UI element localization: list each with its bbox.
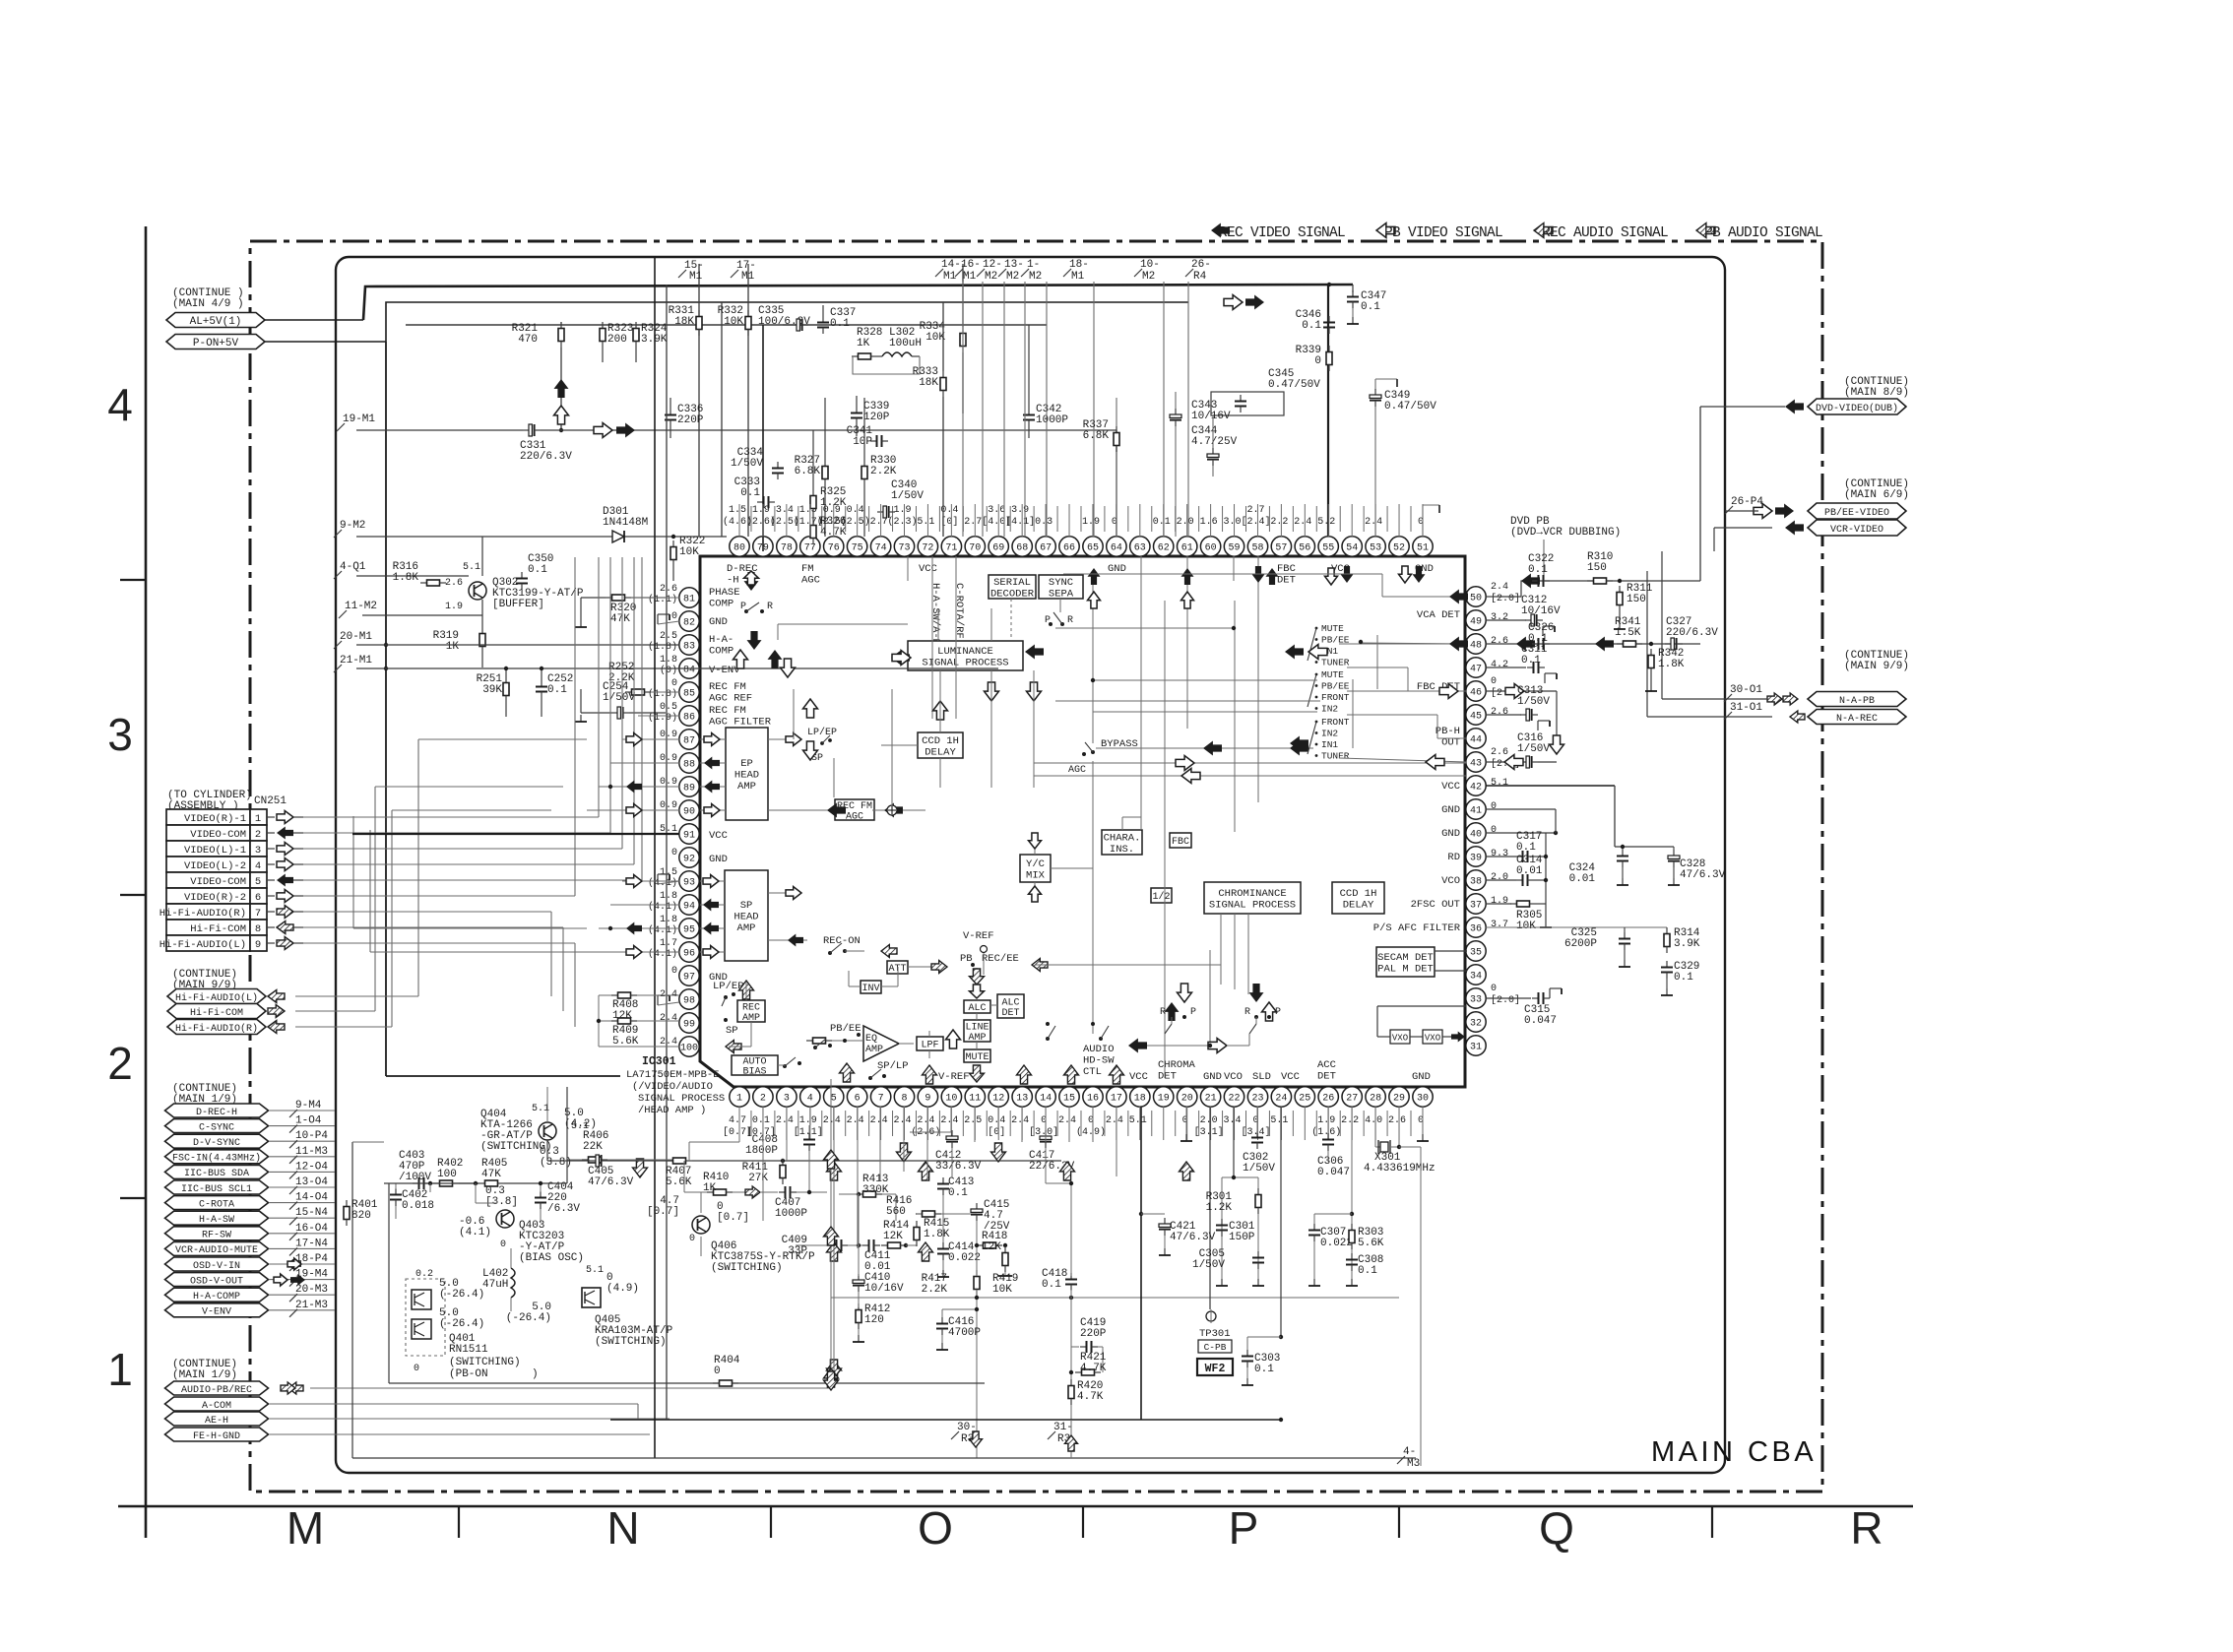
svg-text:4.433619MHz: 4.433619MHz <box>1364 1163 1435 1175</box>
svg-text:4: 4 <box>255 860 261 872</box>
transistor Q404 label <box>480 1109 533 1142</box>
svg-text:26: 26 <box>1322 1094 1334 1105</box>
svg-text:(4.9): (4.9) <box>1076 1126 1106 1138</box>
svg-text:[2.0]: [2.0] <box>1491 593 1520 604</box>
pin 82/92/97 ground hooks <box>658 614 670 624</box>
svg-text:48: 48 <box>1470 641 1482 652</box>
IC301 pin 59 <box>1224 537 1244 556</box>
wire label 1-O4 <box>289 1115 322 1133</box>
svg-text:C-ROTA: C-ROTA <box>199 1199 234 1210</box>
svg-text:220P: 220P <box>677 414 704 426</box>
svg-text:0.047: 0.047 <box>1524 1015 1557 1027</box>
connector CN251 pin 8 Hi-Fi-COM <box>166 920 267 935</box>
net tag A-COM <box>165 1397 269 1412</box>
wire pin47 <box>1486 667 1526 668</box>
arrow pb/ee hollow <box>1754 504 1772 519</box>
svg-text:COMP: COMP <box>709 599 734 610</box>
svg-text:0: 0 <box>414 1364 419 1374</box>
wire pin48 net <box>1486 643 1700 645</box>
wire 4-Q1 <box>356 575 469 577</box>
svg-text:0.3: 0.3 <box>1035 517 1053 528</box>
svg-text:19: 19 <box>1158 1094 1170 1105</box>
svg-text:21-M1: 21-M1 <box>340 655 372 667</box>
svg-text:30: 30 <box>1417 1094 1429 1105</box>
svg-text:1: 1 <box>255 813 261 825</box>
svg-text:FRONT: FRONT <box>1321 717 1350 728</box>
capacitor C312 <box>1525 614 1543 626</box>
wire VCC riser pin55 <box>1327 285 1329 537</box>
arrow CN251 pin 5 <box>267 879 275 881</box>
wires inner verticals <box>1092 581 1094 743</box>
svg-text:10/16V: 10/16V <box>1191 411 1231 422</box>
wire VCR-AUDIO-MUTE <box>269 1247 335 1249</box>
svg-text:10-P4: 10-P4 <box>295 1130 328 1142</box>
svg-text:CHROMINANCE: CHROMINANCE <box>1218 888 1286 900</box>
svg-text:64: 64 <box>1111 543 1122 554</box>
wire label 9-M2 <box>334 520 365 538</box>
svg-text:29: 29 <box>1393 1094 1405 1105</box>
svg-text:DET: DET <box>1277 575 1296 587</box>
svg-text:ACC: ACC <box>1317 1059 1336 1071</box>
wire left bus 2 <box>666 285 668 1419</box>
svg-text:M3: M3 <box>1407 1458 1420 1470</box>
ground <box>1545 673 1557 683</box>
svg-text:(4.1): (4.1) <box>459 1227 491 1239</box>
net tag V-ENV <box>165 1303 269 1318</box>
wire bottom rail <box>352 1457 1416 1459</box>
svg-text:TUNER: TUNER <box>1321 751 1350 762</box>
svg-text:/100V: /100V <box>399 1172 431 1183</box>
capacitor C312 label <box>1521 595 1561 617</box>
svg-text:0.022: 0.022 <box>1320 1238 1353 1249</box>
arrow CN251 pin 7 <box>267 911 275 913</box>
svg-text:P/S AFC FILTER: P/S AFC FILTER <box>1373 922 1461 934</box>
svg-text:55: 55 <box>1322 543 1334 554</box>
IC301 pin 98 <box>679 989 699 1009</box>
resistor R319 <box>479 627 485 653</box>
capacitor C411 <box>862 1239 880 1251</box>
resistor R324 <box>633 322 639 348</box>
IC301 pin 35 <box>1466 941 1486 961</box>
svg-text:34: 34 <box>1470 972 1482 983</box>
frame tick <box>120 579 146 581</box>
svg-text:(PB-ON: (PB-ON <box>449 1368 488 1380</box>
block LPF <box>917 1037 943 1051</box>
resistor eq series <box>806 1038 832 1044</box>
svg-text:24: 24 <box>1275 1094 1287 1105</box>
capacitor C402 label <box>402 1189 434 1212</box>
svg-text:DECODER: DECODER <box>990 588 1035 600</box>
svg-text:1/50V: 1/50V <box>1517 743 1550 755</box>
svg-text:[2.0]: [2.0] <box>1491 994 1520 1006</box>
wires top internal drops <box>907 556 909 581</box>
svg-text:90: 90 <box>683 807 695 818</box>
arrow audio ctl <box>1110 1065 1124 1084</box>
diode D301 label <box>603 506 648 529</box>
resistor R413 <box>857 1191 882 1197</box>
svg-text:VCC: VCC <box>1129 1071 1148 1083</box>
wire video lattice <box>303 848 622 850</box>
resistor R333 label <box>913 366 939 389</box>
svg-text:Hi-Fi-COM: Hi-Fi-COM <box>190 923 246 935</box>
svg-text:2.6: 2.6 <box>660 584 677 595</box>
svg-text:AGC: AGC <box>846 811 863 822</box>
net tag PB/EE-VIDEO <box>1808 503 1906 519</box>
svg-text:93: 93 <box>683 878 695 889</box>
svg-text:IN2: IN2 <box>1321 704 1338 715</box>
svg-text:VCC: VCC <box>709 830 728 842</box>
svg-text:A-COM: A-COM <box>202 1401 231 1412</box>
wire OSD-V-IN <box>269 1263 335 1265</box>
frame tick <box>770 1506 772 1538</box>
wires q403/q404 <box>384 1182 478 1184</box>
svg-text:12: 12 <box>992 1094 1004 1105</box>
wire drops from bottom pins <box>738 1107 740 1142</box>
inner verticals right half <box>1140 556 1142 830</box>
svg-text:N: N <box>606 1502 639 1554</box>
svg-text:IN1: IN1 <box>1321 739 1338 750</box>
svg-text:DET: DET <box>1317 1071 1336 1083</box>
wire label 4-M3 <box>1397 1446 1416 1464</box>
capacitor C417 <box>1040 1130 1052 1148</box>
capacitor C421 <box>1159 1218 1171 1236</box>
svg-text:9-M4: 9-M4 <box>295 1100 322 1112</box>
capacitor C349 <box>1370 389 1381 407</box>
right inner verticals <box>1376 635 1378 689</box>
svg-text:0.01: 0.01 <box>1516 865 1543 877</box>
svg-text:22: 22 <box>1228 1094 1240 1105</box>
svg-text:3: 3 <box>255 845 261 857</box>
svg-text:R: R <box>1244 1007 1250 1018</box>
svg-text:(MAIN 1/9): (MAIN 1/9) <box>172 1369 237 1381</box>
capacitor C334 label <box>731 447 763 470</box>
wire n-a-pb <box>1662 698 1767 700</box>
resistor R305 <box>1510 901 1536 907</box>
svg-text:R: R <box>1067 615 1073 626</box>
svg-text:): ) <box>532 1368 539 1380</box>
svg-text:1/50V: 1/50V <box>1517 696 1550 708</box>
IC301 pin 30 <box>1413 1087 1433 1107</box>
wire pb/ee-video <box>1725 510 1758 512</box>
svg-text:VCC: VCC <box>1441 781 1460 793</box>
net tag RF-SW <box>165 1227 269 1241</box>
resistor R414 <box>881 1242 907 1248</box>
svg-text:10: 10 <box>945 1094 957 1105</box>
svg-text:51: 51 <box>1417 543 1429 554</box>
capacitor C410 <box>853 1274 864 1292</box>
svg-text:32: 32 <box>1470 1019 1482 1030</box>
svg-text:47/6.3V: 47/6.3V <box>1170 1232 1216 1243</box>
wire 19-M1 right <box>541 429 1116 431</box>
svg-text:INV: INV <box>861 984 879 994</box>
svg-text:VCO: VCO <box>1441 875 1460 887</box>
svg-text:560: 560 <box>886 1206 906 1218</box>
IC301 pin 20 <box>1178 1087 1197 1107</box>
capacitor C254 label <box>603 681 635 704</box>
svg-text:SIGNAL PROCESS: SIGNAL PROCESS <box>1209 899 1296 911</box>
svg-text:2.0: 2.0 <box>1177 517 1194 528</box>
IC301 pin 36 <box>1466 918 1486 937</box>
arrow r406 <box>633 1159 648 1177</box>
svg-text:1.5K: 1.5K <box>1615 627 1641 639</box>
svg-text:0.1: 0.1 <box>1254 1364 1274 1375</box>
IC301 pin 91 <box>679 824 699 844</box>
resistor R420 <box>1068 1379 1074 1405</box>
ground <box>1347 317 1359 324</box>
svg-text:[2.4]: [2.4] <box>1241 516 1270 528</box>
svg-text:57: 57 <box>1275 543 1287 554</box>
ground <box>1346 1279 1358 1286</box>
note DVD PB dubbing <box>1510 516 1621 539</box>
svg-text:3.9K: 3.9K <box>1674 938 1700 950</box>
svg-text:16: 16 <box>1087 1094 1099 1105</box>
svg-text:4.7: 4.7 <box>729 1115 746 1126</box>
note continue main 8/9 <box>1844 376 1909 399</box>
svg-text:(4.1): (4.1) <box>648 924 677 936</box>
svg-text:0.1: 0.1 <box>740 487 760 499</box>
wire label 4-Q1 <box>334 561 366 579</box>
IC301 pin 87 <box>679 730 699 749</box>
arrow on 19-M1 solid <box>616 423 635 438</box>
svg-text:GND: GND <box>709 616 728 628</box>
arrow OSD-V-OUT solid <box>290 1274 305 1286</box>
svg-text:0: 0 <box>689 1234 695 1244</box>
svg-text:1.6: 1.6 <box>1200 517 1218 528</box>
frame tick <box>1398 1506 1400 1538</box>
svg-text:[4.1]: [4.1] <box>1005 516 1035 528</box>
svg-text:5.6K: 5.6K <box>666 1176 692 1188</box>
svg-text:HEAD: HEAD <box>734 912 758 923</box>
resistor R418 <box>977 1242 1002 1248</box>
capacitor C409 <box>830 1239 848 1251</box>
ATT wire <box>908 966 933 968</box>
svg-text:10K: 10K <box>724 316 743 328</box>
svg-text:P: P <box>1275 1007 1281 1018</box>
svg-text:PB/EE-VIDEO: PB/EE-VIDEO <box>1824 507 1889 519</box>
svg-text:0: 0 <box>671 611 677 622</box>
wire D-REC-H <box>269 1110 335 1112</box>
wire R333 drop <box>942 302 944 371</box>
svg-text:1/50V: 1/50V <box>731 458 763 470</box>
IC301 pin 16 <box>1083 1087 1103 1107</box>
svg-text:FBC: FBC <box>1277 563 1296 575</box>
svg-text:17: 17 <box>1111 1094 1122 1105</box>
wires left of pins 87-90,93-96 <box>622 738 679 740</box>
resistor R407 <box>667 1158 692 1164</box>
resistor R408 <box>611 992 637 998</box>
svg-text:0: 0 <box>1314 355 1321 367</box>
arrows on P-ON bus <box>1224 295 1243 310</box>
svg-text:IIC-BUS SDA: IIC-BUS SDA <box>184 1169 249 1179</box>
inductor L402 <box>482 1268 508 1291</box>
svg-text:2.0: 2.0 <box>1200 1115 1218 1126</box>
svg-text:2.4: 2.4 <box>660 1037 677 1048</box>
wire 19-M1 <box>356 429 523 431</box>
capacitor C344 <box>1207 448 1219 466</box>
svg-text:V-ENV: V-ENV <box>709 665 740 676</box>
resistor R342 <box>1648 649 1654 674</box>
capacitor C335 <box>791 319 808 331</box>
svg-text:1/50V: 1/50V <box>603 692 635 704</box>
capacitor C403 label <box>399 1150 431 1183</box>
svg-text:88: 88 <box>683 760 695 771</box>
svg-text:10/16V: 10/16V <box>864 1283 904 1295</box>
svg-text:5: 5 <box>831 1094 837 1105</box>
svg-text:0.018: 0.018 <box>402 1200 434 1212</box>
wire 20-M1 <box>356 644 679 646</box>
arrow y788 <box>1181 769 1200 784</box>
wire label 11-M2 <box>339 601 377 618</box>
IC301 pin 71 <box>941 537 961 556</box>
svg-text:2: 2 <box>107 1038 133 1089</box>
IC301 pin 48 <box>1466 634 1486 654</box>
wire 21-M1 <box>356 667 998 669</box>
svg-text:31-: 31- <box>1053 1422 1073 1433</box>
svg-text:16-O4: 16-O4 <box>295 1223 328 1235</box>
svg-text:2.4: 2.4 <box>1058 1115 1076 1126</box>
IC301 pin 22 <box>1224 1087 1244 1107</box>
svg-text:3.0: 3.0 <box>1224 517 1242 528</box>
resistor R327 <box>822 460 828 485</box>
wire 11-M2 <box>362 614 482 616</box>
svg-text:35: 35 <box>1470 948 1482 959</box>
wire H-A-COMP <box>269 1294 335 1296</box>
resistor R301 <box>1255 1188 1261 1214</box>
IC301 pin 82 <box>679 611 699 631</box>
arrows under pins 79/78 (D-REC/FM AGC) <box>744 572 759 591</box>
border frame left rule <box>145 226 148 1538</box>
svg-text:3.9: 3.9 <box>1011 505 1029 516</box>
svg-text:DET: DET <box>1158 1071 1177 1083</box>
wire bus to IC left <box>762 325 764 551</box>
wire label 11-M3 <box>289 1146 328 1164</box>
svg-text:1800P: 1800P <box>745 1145 778 1157</box>
svg-text:10/16V: 10/16V <box>1521 605 1561 617</box>
transistor Q403 <box>496 1210 514 1228</box>
svg-text:27K: 27K <box>748 1173 768 1184</box>
shield box C343/C344 <box>1211 392 1284 415</box>
svg-text:33/6.3V: 33/6.3V <box>935 1161 982 1173</box>
svg-text:(4.9): (4.9) <box>606 1283 639 1295</box>
svg-text:0.1: 0.1 <box>547 684 567 696</box>
svg-text:85: 85 <box>683 689 695 700</box>
svg-text:CN251: CN251 <box>254 795 287 807</box>
svg-text:VIDEO(R)-1: VIDEO(R)-1 <box>184 813 246 825</box>
svg-text:0.9: 0.9 <box>660 730 677 740</box>
arrow hatch bottom <box>1060 1162 1075 1180</box>
capacitor C305 <box>1252 1251 1264 1269</box>
resistor R322 <box>670 540 676 566</box>
wire pin35 <box>1435 950 1467 952</box>
svg-text:(0): (0) <box>660 665 677 676</box>
arrow pb video up <box>554 406 569 424</box>
svg-text:0.1: 0.1 <box>1042 1279 1061 1291</box>
capacitor C307 <box>1308 1224 1320 1241</box>
svg-text:20-M3: 20-M3 <box>295 1284 328 1296</box>
svg-text:7: 7 <box>255 908 261 920</box>
wire pin37 <box>1486 903 1511 905</box>
svg-text:77: 77 <box>804 543 816 554</box>
capacitor C414 <box>937 1242 949 1260</box>
svg-text:PB/EE: PB/EE <box>1321 681 1350 692</box>
IC301 pin 38 <box>1466 870 1486 890</box>
transistor Q302 label <box>492 577 584 610</box>
svg-text:63: 63 <box>1134 543 1146 554</box>
resistor R311 <box>1617 586 1623 611</box>
svg-text:120: 120 <box>864 1314 884 1326</box>
arrow hatch bottom <box>827 1162 842 1180</box>
wire H-A-SW <box>269 1217 335 1219</box>
svg-text:(1.6): (1.6) <box>1311 1126 1341 1138</box>
wire stubs bottom pins <box>738 1107 740 1140</box>
svg-text:12-O4: 12-O4 <box>295 1161 328 1173</box>
legend PB VIDEO SIGNAL arrow <box>1376 223 1395 238</box>
wire n-a-pb drop <box>1661 551 1663 699</box>
wire label 20-M1 <box>334 631 372 649</box>
svg-text:0: 0 <box>671 966 677 977</box>
svg-text:TUNER: TUNER <box>1321 658 1350 668</box>
IC301 pin 50 <box>1466 587 1486 606</box>
svg-text:FSC-IN(4.43MHz): FSC-IN(4.43MHz) <box>172 1153 261 1165</box>
capacitor C336 <box>665 409 676 426</box>
net tag AE-H <box>165 1412 269 1427</box>
block VXO 2 <box>1423 1030 1442 1044</box>
transistor Q406 label <box>711 1240 815 1274</box>
transistor Q403 label <box>519 1220 565 1253</box>
svg-text:4.7K: 4.7K <box>1080 1363 1107 1374</box>
IC301 pin 28 <box>1366 1087 1385 1107</box>
net tag N-A-REC <box>1808 710 1906 725</box>
resistor R416 <box>916 1211 941 1217</box>
svg-text:RF-SW: RF-SW <box>202 1231 231 1241</box>
resistor R419 <box>1002 1246 1008 1272</box>
connector CN251 pin 2 VIDEO-COM <box>166 825 267 841</box>
wire vxo link <box>1410 1036 1423 1038</box>
block ALC det <box>997 994 1024 1019</box>
svg-text:LINE: LINE <box>965 1022 989 1033</box>
wire label 14-O4 <box>289 1192 328 1210</box>
IC301 pin 90 <box>679 800 699 820</box>
capacitor C405 <box>590 1155 607 1167</box>
wire dvd-video <box>1700 406 1785 408</box>
wire pin40 <box>1486 832 1556 834</box>
resistor R330 <box>861 460 867 485</box>
ground <box>1540 921 1552 927</box>
P/R switch pair A <box>1165 1002 1180 1021</box>
capacitor C329 <box>1661 961 1673 979</box>
svg-text:4.2: 4.2 <box>1491 660 1508 670</box>
svg-text:P: P <box>1190 1007 1196 1018</box>
svg-text:VXO: VXO <box>1425 1034 1440 1044</box>
capacitor C346 <box>1323 316 1335 334</box>
wire pin34 <box>1435 970 1467 972</box>
ground <box>1538 721 1550 731</box>
transistor Q406 <box>692 1216 710 1234</box>
svg-text:0.022: 0.022 <box>948 1252 981 1264</box>
svg-text:VIDEO-COM: VIDEO-COM <box>190 876 246 888</box>
svg-text:REC AUDIO SIGNAL: REC AUDIO SIGNAL <box>1542 225 1668 241</box>
svg-text:100uH: 100uH <box>889 338 922 349</box>
wire P-ON+5V <box>265 341 386 343</box>
svg-text:VXO: VXO <box>1392 1034 1408 1044</box>
capacitor C315 <box>1532 992 1550 1004</box>
arrow hatch bottom <box>919 1162 933 1180</box>
y/c mix wires <box>1034 837 1036 855</box>
svg-text:2.0: 2.0 <box>1491 872 1508 883</box>
svg-text:4: 4 <box>807 1094 813 1105</box>
P/R switch pair B <box>1249 984 1264 1002</box>
svg-text:81: 81 <box>683 595 695 605</box>
